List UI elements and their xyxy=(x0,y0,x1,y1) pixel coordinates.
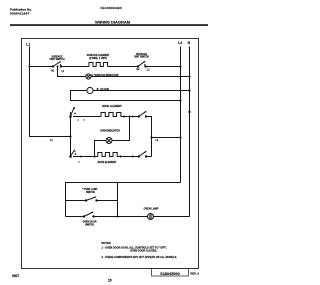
wire thermostat to L2 xyxy=(152,137,181,139)
junction L1-thermostat xyxy=(69,135,71,137)
junction indicator riser-broil row xyxy=(129,116,131,118)
svg-text:SURFACE ELEMENT: SURFACE ELEMENT xyxy=(87,54,110,57)
wire lamp switch to right vertical xyxy=(97,200,118,202)
svg-text:CLOCK: CLOCK xyxy=(100,88,109,91)
svg-text:SURFACE INDICATOR: SURFACE INDICATOR xyxy=(94,74,119,77)
resistor surface element xyxy=(89,63,108,67)
svg-text:BROIL ELEMENT: BROIL ELEMENT xyxy=(102,105,122,108)
svg-text:H1: H1 xyxy=(51,71,55,73)
marker oven lamp switch note xyxy=(81,187,84,190)
header rule xyxy=(10,24,208,26)
junction right connector mid xyxy=(150,136,152,138)
resistor bake element xyxy=(98,153,120,157)
svg-text:REV. A: REV. A xyxy=(191,272,200,276)
wire oven indicator left xyxy=(95,141,107,157)
svg-text:FEC36X6ABD: FEC36X6ABD xyxy=(101,6,123,10)
svg-text:OVEN DOOR CLOSED.: OVEN DOOR CLOSED. xyxy=(130,250,157,253)
wire broil row left xyxy=(73,116,101,118)
text header xyxy=(10,6,199,282)
svg-text:L2: L2 xyxy=(147,69,150,71)
node L2 (bus) xyxy=(180,47,182,183)
switch bake relay xyxy=(138,151,147,158)
wire pilot drop xyxy=(58,67,86,77)
wire row1 left xyxy=(30,66,54,68)
node blob on N bus xyxy=(189,111,191,113)
svg-text:L2: L2 xyxy=(178,41,182,45)
connector arrows bake right xyxy=(132,155,134,157)
svg-text:0607: 0607 xyxy=(12,274,19,278)
wire bake row left xyxy=(73,156,98,158)
junction row1-L1 xyxy=(28,65,30,67)
junction indicator riser-bake row xyxy=(94,156,96,158)
switch broil relay xyxy=(138,111,147,118)
lamp oven indicator xyxy=(106,138,112,144)
wire broil row mid xyxy=(124,116,139,118)
switch oven thermostat bake contact xyxy=(70,149,77,157)
svg-text:S18045000: S18045000 xyxy=(160,272,179,276)
svg-text:SWITCH: SWITCH xyxy=(85,224,94,226)
svg-text:2 - THESE COMPONENTS MAY NOT A: 2 - THESE COMPONENTS MAY NOT APPEAR ON A… xyxy=(102,256,178,259)
svg-text:SWITCH: SWITCH xyxy=(86,192,95,194)
switch surface unit switch 2 xyxy=(137,61,146,68)
wire row1 mid xyxy=(61,66,89,68)
wire lamp to N xyxy=(154,216,190,218)
wire oven thermostat center vertical xyxy=(70,112,72,157)
resistor broil element xyxy=(101,113,124,117)
connector arrow pilot drop xyxy=(57,68,59,70)
terminal dot bake element xyxy=(120,156,122,158)
switch oven thermostat broil contact xyxy=(70,107,77,118)
svg-text:OVEN LAMP: OVEN LAMP xyxy=(84,188,98,191)
wire door switch to lamp xyxy=(94,216,148,218)
junction pilot tap xyxy=(57,66,59,68)
svg-text:L1: L1 xyxy=(50,140,53,142)
connector arrows broil xyxy=(132,115,134,117)
lamp surface indicator xyxy=(86,74,91,79)
svg-text:1: 1 xyxy=(78,120,80,122)
switch oven door switch xyxy=(83,212,94,218)
junction lamp block right xyxy=(117,216,119,218)
wire bake row mid xyxy=(119,156,139,158)
wire clock right to N xyxy=(93,90,189,92)
clock label marker xyxy=(97,88,99,90)
wire lamp block right vertical xyxy=(117,183,119,217)
wire lamp block top xyxy=(66,183,181,217)
connector arrows bake left xyxy=(81,155,83,157)
svg-text:L1: L1 xyxy=(62,71,65,73)
node L1 (bus) xyxy=(30,47,71,137)
wire clock left loop to L2 xyxy=(71,91,181,101)
wire oven indicator right xyxy=(112,117,130,141)
clock (motor) xyxy=(87,87,93,93)
svg-text:NOTES:: NOTES: xyxy=(102,241,112,245)
node N (bus) xyxy=(189,47,191,217)
wire lamp bottom row xyxy=(66,216,85,218)
wire lamp switch row xyxy=(66,200,86,202)
lamp oven lamp xyxy=(148,214,154,220)
svg-text:L2: L2 xyxy=(156,140,159,142)
svg-text:UNIT SWITCH: UNIT SWITCH xyxy=(134,56,149,58)
junction clock loop-L2 xyxy=(179,99,181,101)
title block box xyxy=(152,269,189,277)
svg-text:WIRING DIAGRAM: WIRING DIAGRAM xyxy=(95,20,131,25)
junction thermostat wire-L2 xyxy=(179,136,181,138)
svg-text:5995421997: 5995421997 xyxy=(10,11,30,15)
switch oven lamp switch xyxy=(85,196,97,201)
svg-text:2: 2 xyxy=(84,120,86,122)
wire bake to right connector xyxy=(146,156,152,158)
junction row2-N xyxy=(188,75,190,77)
switch surface unit switch 1 xyxy=(52,61,61,67)
junction row1-L2 xyxy=(179,65,181,67)
svg-text:L1: L1 xyxy=(26,42,30,46)
svg-text:(2 WIRE, 1 UNIT): (2 WIRE, 1 UNIT) xyxy=(89,58,107,60)
terminal dot broil element xyxy=(123,116,125,118)
svg-text:BAKE ELEMENT: BAKE ELEMENT xyxy=(98,161,117,164)
junction clock-N xyxy=(188,89,190,91)
wire indicator to N xyxy=(91,76,190,78)
surface indicator label marker xyxy=(92,74,94,76)
svg-text:1: 1 xyxy=(79,162,81,164)
svg-text:15: 15 xyxy=(108,279,112,283)
svg-text:OVEN LAMP: OVEN LAMP xyxy=(144,208,159,211)
wire broil to right connector xyxy=(146,117,152,157)
border frame xyxy=(22,39,199,269)
svg-text:H2: H2 xyxy=(137,69,141,71)
wire row1 right xyxy=(146,66,181,68)
svg-text:OVEN INDICATOR: OVEN INDICATOR xyxy=(100,130,120,133)
wire row1 mid2 xyxy=(108,66,139,68)
svg-text:UNIT SWITCH: UNIT SWITCH xyxy=(49,59,64,61)
svg-text:N: N xyxy=(188,41,191,45)
